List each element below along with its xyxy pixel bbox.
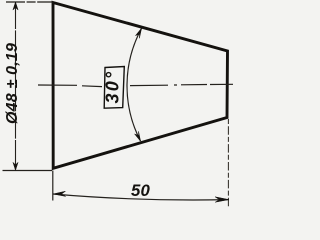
arrow right (50 dim) [215, 197, 229, 202]
svg-text:30°: 30° [102, 70, 122, 104]
dimension line diameter [15, 3, 17, 170]
dimension line 50 [53, 194, 229, 200]
arrow arc bottom [135, 131, 141, 141]
paper background [0, 0, 237, 210]
arrow left (50 dim) [53, 191, 66, 196]
svg-text:50: 50 [131, 181, 151, 200]
arrow down (diameter dim) [13, 162, 18, 170]
svg-text:Ø48 ± 0,19: Ø48 ± 0,19 [4, 43, 21, 124]
arrow arc top [136, 28, 142, 38]
cone frustum outline [53, 3, 228, 169]
extension line top (for diameter dim) [6, 1, 53, 3]
angle arc dimension [127, 29, 142, 142]
extension line bottom-left (for diameter dim) [3, 170, 53, 172]
centerline (dash-dot axis) [38, 84, 233, 86]
extension line below left corner (for 50 dim) [52, 171, 54, 201]
arrow up (diameter dim) [13, 2, 18, 10]
extension line right (for 50 dim) [227, 119, 229, 208]
30 degree box [104, 67, 124, 109]
